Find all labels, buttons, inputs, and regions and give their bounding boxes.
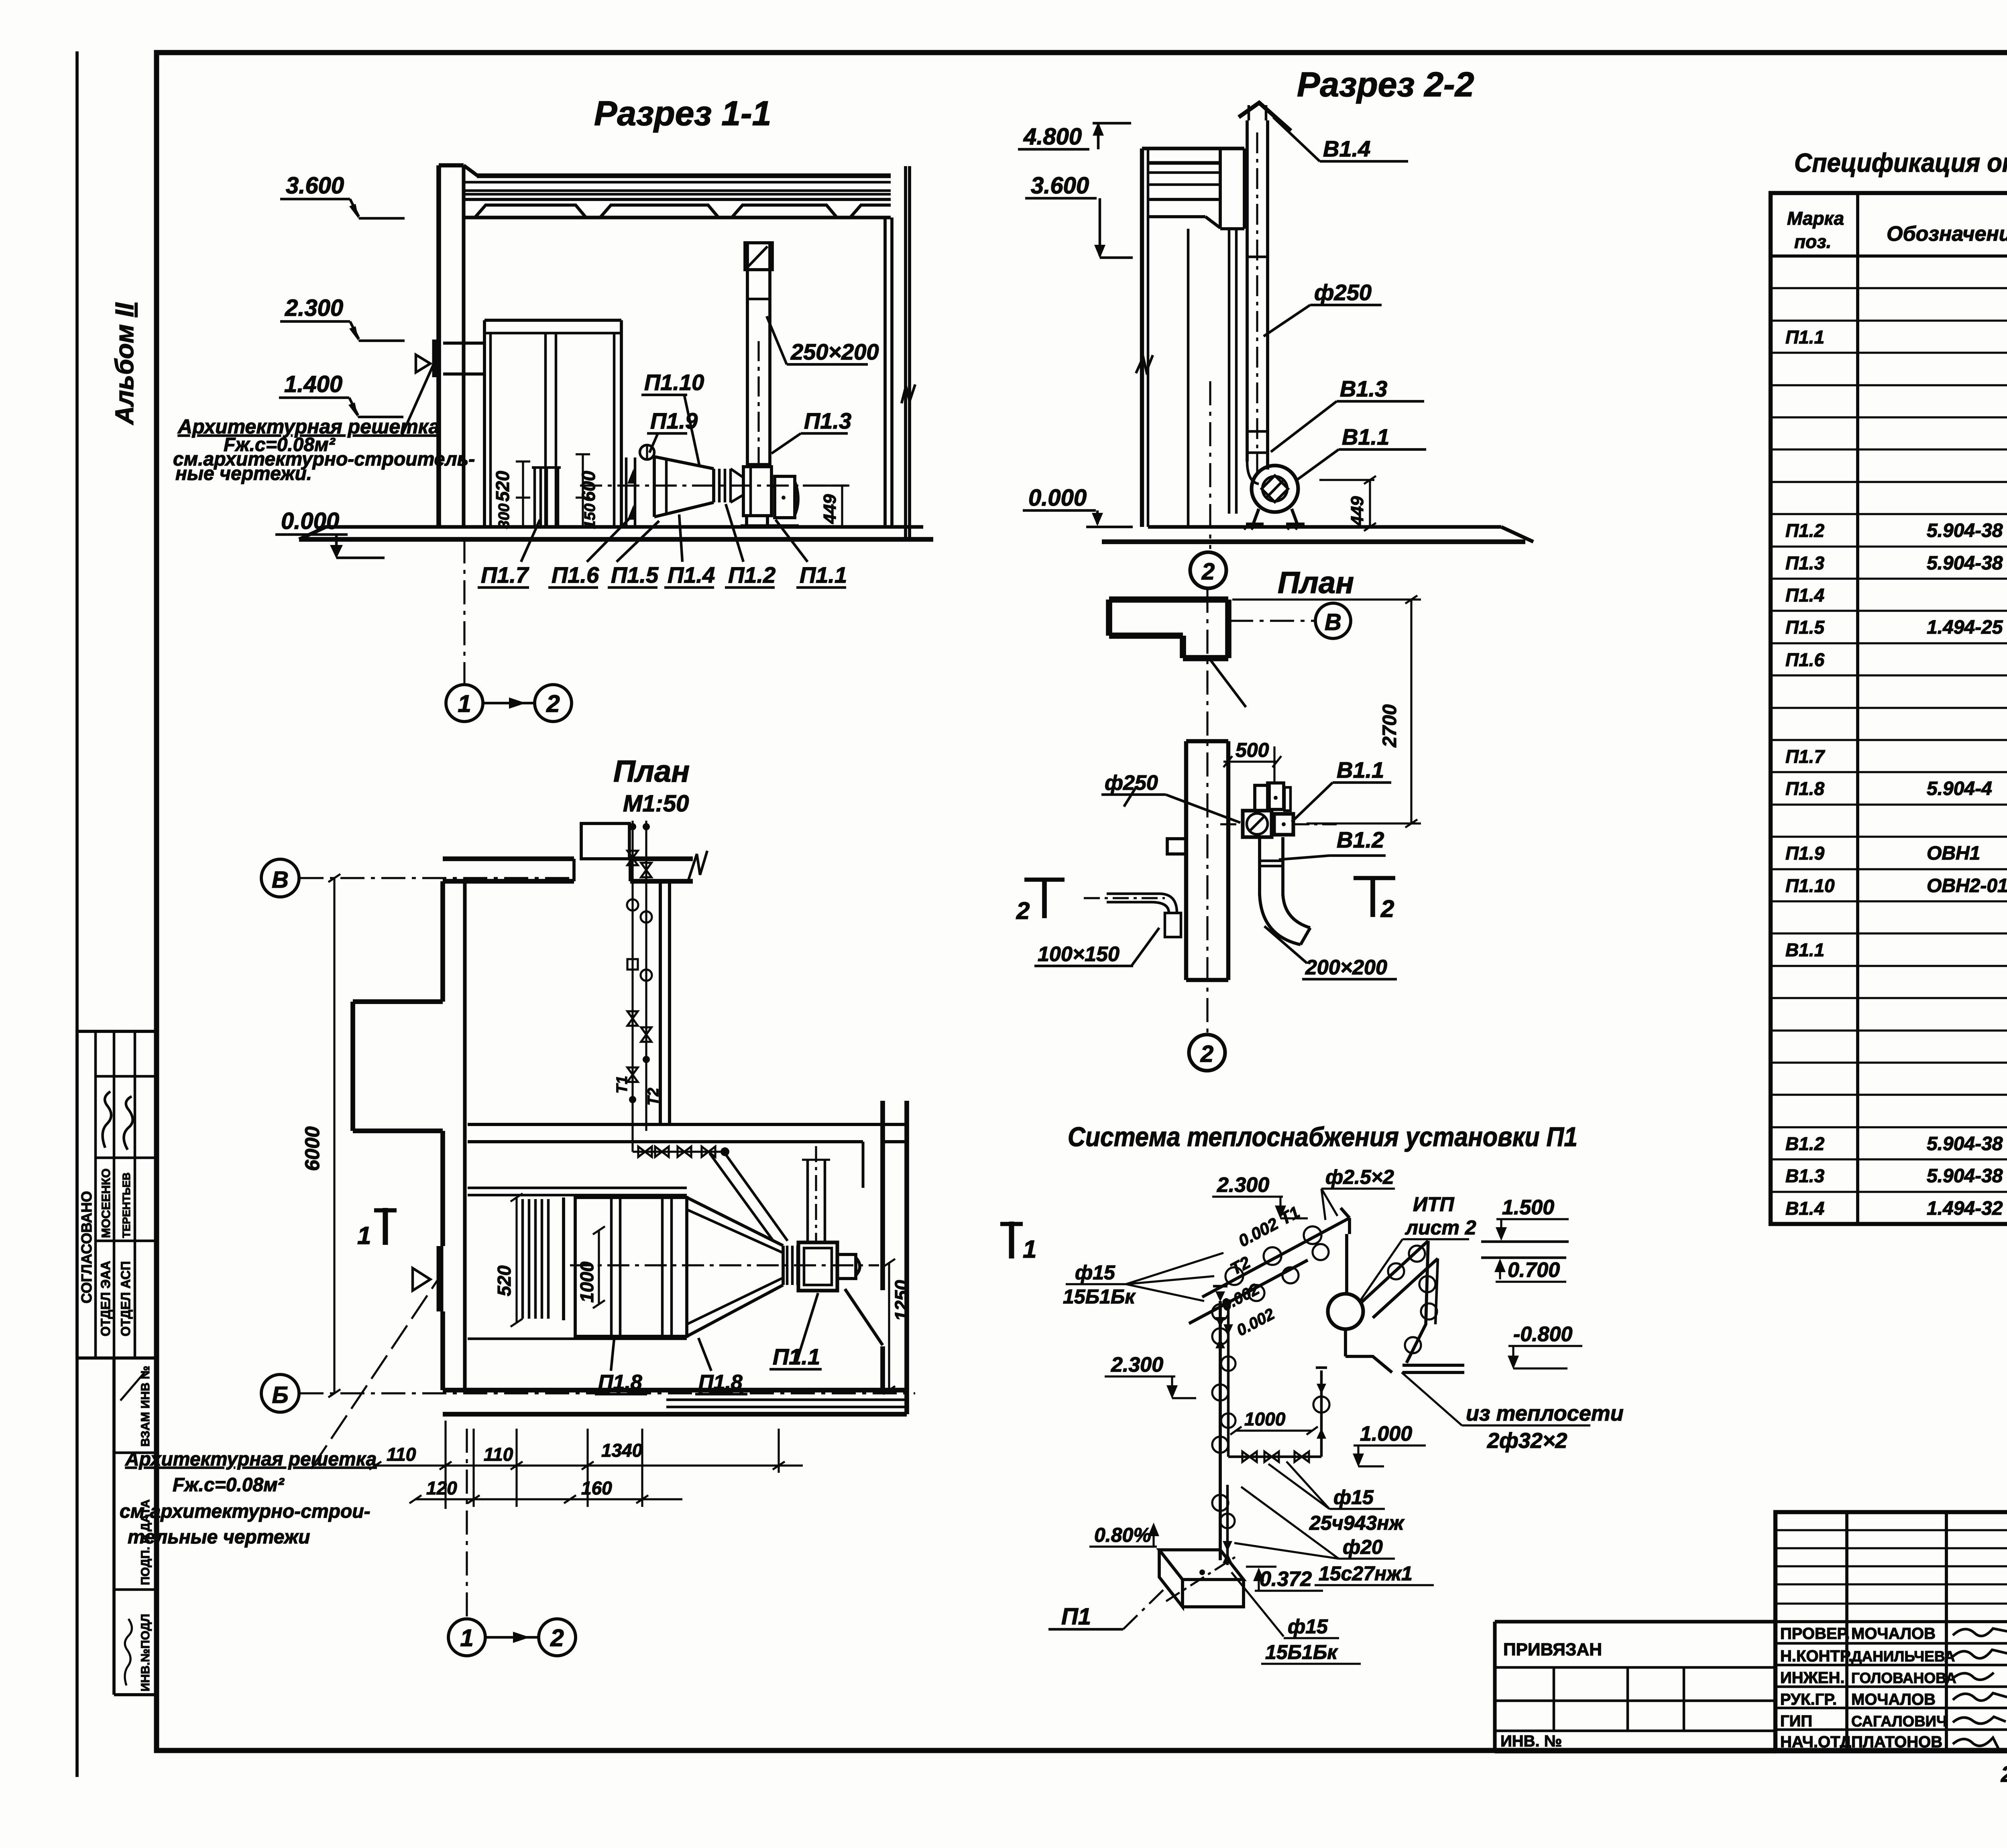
handwritten inv number [125,1619,132,1685]
svg-text:П1.1: П1.1 [1785,327,1824,348]
svg-text:0.80%: 0.80% [1094,1524,1151,1546]
architectural grille plate on wall [432,340,439,377]
svg-text:П1.5: П1.5 [611,562,659,588]
svg-text:В1.3: В1.3 [1785,1165,1825,1186]
section mark 1 left [383,1208,388,1245]
fan feet [745,516,748,526]
left wall [1140,148,1144,527]
svg-text:ИТП: ИТП [1413,1193,1455,1216]
svg-text:ф15: ф15 [1075,1261,1115,1284]
axis bubble 2 [535,685,572,722]
doorway leaf upper П1.8 [581,823,629,859]
dim 449 [1319,479,1374,481]
riser lower part to П1 box [1226,1485,1229,1565]
stack umbrella cap [1248,105,1250,120]
svg-text:2: 2 [1380,895,1394,922]
svg-text:520: 520 [494,1265,515,1296]
svg-text:1: 1 [458,690,471,717]
svg-text:2.300: 2.300 [1111,1353,1163,1376]
svg-text:ные чертежи.: ные чертежи. [175,463,312,484]
svg-text:2: 2 [1016,897,1030,924]
section mark 1 right [1009,1222,1014,1258]
svg-text:П1.7: П1.7 [1785,746,1825,767]
svg-text:0.700: 0.700 [1508,1258,1560,1282]
axis line below section [463,539,465,684]
svg-text:520: 520 [492,471,513,502]
roof beam web 3 [732,205,837,218]
svg-text:1.400: 1.400 [284,371,342,397]
svg-text:ГОЛОВАНОВА: ГОЛОВАНОВА [1851,1670,1956,1686]
fan inlet stub above [806,1160,809,1242]
svg-text:В1.4: В1.4 [1323,136,1370,161]
interior wall vertical [659,881,662,1124]
svg-text:ДАНИЛЬЧЕВА: ДАНИЛЬЧЕВА [1851,1648,1955,1665]
riser valve triangles [1215,1317,1225,1328]
signatures sub-block [1775,1512,2007,1751]
svg-text:2700: 2700 [1379,704,1400,748]
svg-text:П1.2: П1.2 [728,562,776,588]
section mark 2 left [1042,880,1047,918]
svg-text:ф250: ф250 [1105,771,1158,795]
svg-text:-0.800: -0.800 [1513,1323,1573,1346]
air damper П1.6 [625,457,628,526]
right wall band [880,1101,885,1290]
fan scroll П1.1 [743,467,771,516]
svg-text:В1.2: В1.2 [1337,827,1384,852]
dim 1250 [888,1263,890,1390]
svg-text:ПРИВЯЗАН: ПРИВЯЗАН [1503,1640,1602,1659]
svg-text:из теплосети: из теплосети [1466,1401,1624,1425]
svg-text:1: 1 [357,1222,371,1250]
svg-text:Спецификация отопительно-Венти: Спецификация отопительно-Вентиляционных … [1794,148,2007,177]
signature squiggles [103,1092,111,1148]
svg-text:5.904-38: 5.904-38 [1927,553,2003,574]
svg-text:Fж.с=0.08м²: Fж.с=0.08м² [173,1474,285,1496]
duct chase wall [1184,741,1188,980]
axis line and bubble 2 [1209,381,1211,549]
fan П1.1 plan [798,1242,837,1291]
axis bubble 2 bottom [1189,1035,1225,1071]
lower margin cells [112,1358,116,1695]
svg-text:Н.КОНТР.: Н.КОНТР. [1780,1647,1853,1665]
transition П1.9 handle circle [640,445,654,459]
svg-text:Обозначение: Обозначение [1887,222,2007,246]
cone transition [687,1197,783,1336]
dim 1000 horizontal [1236,1429,1313,1431]
svg-text:П1.6: П1.6 [552,562,599,588]
heating pipe risers [631,821,633,1131]
svg-text:1340: 1340 [601,1440,643,1461]
leader from wall block [1209,658,1246,707]
small duct 100x150 [1107,892,1159,895]
привязан block [1495,1620,1775,1623]
svg-text:Разрез 1-1: Разрез 1-1 [594,94,771,133]
svg-text:МОСЕЕНКО: МОСЕЕНКО [100,1169,113,1238]
svg-text:П1.2: П1.2 [1785,520,1824,541]
pilaster step out [353,999,443,1004]
filter П1.7 [533,468,536,526]
roof slab lines [477,173,891,178]
svg-text:25ч943нж: 25ч943нж [1309,1512,1404,1534]
left margin stamp table [77,1031,156,1695]
axis bubble 2 top [1190,552,1226,588]
svg-text:Т1: Т1 [614,1076,631,1094]
svg-text:Альбом II: Альбом II [110,302,139,425]
svg-text:110: 110 [484,1444,513,1465]
svg-text:ОТДЕЛ АСП: ОТДЕЛ АСП [118,1261,133,1336]
inner chamber outline [468,1187,687,1189]
svg-text:160: 160 [581,1478,612,1498]
svg-text:2: 2 [1201,559,1215,585]
door frame [484,319,621,322]
svg-text:ИНВ. №: ИНВ. № [1500,1732,1562,1750]
svg-text:ф15: ф15 [1333,1486,1374,1508]
svg-text:250×200: 250×200 [790,339,879,364]
svg-text:П1.7: П1.7 [481,562,529,588]
svg-text:1.494-32: 1.494-32 [1927,1198,2003,1219]
door leaf right wall [845,1289,883,1345]
svg-text:САГАЛОВИЧ: САГАЛОВИЧ [1851,1713,1947,1730]
П1 heater box axonometric [1159,1550,1244,1580]
floor slab [325,525,923,529]
pipes from теплосеть zigzag [1362,1241,1428,1302]
svg-text:1000: 1000 [1244,1409,1286,1429]
spec table grid [1771,193,2007,1224]
svg-text:ТЕРЕНТЬЕВ: ТЕРЕНТЬЕВ [120,1173,132,1238]
svg-text:П1.8: П1.8 [598,1371,642,1394]
svg-text:ПРОВЕР.: ПРОВЕР. [1780,1625,1850,1643]
fan centerline [570,1264,879,1266]
svg-text:6000: 6000 [301,1126,324,1171]
roof beam web 4 [850,205,891,218]
dim 1000 vertical [598,1230,600,1304]
svg-text:НАЧ.ОТД: НАЧ.ОТД [1780,1733,1851,1751]
svg-text:1.000: 1.000 [1360,1422,1412,1445]
svg-text:1: 1 [1023,1236,1036,1263]
ITP node circle [1328,1294,1363,1329]
grille direction triangle [416,355,430,372]
axis connector [483,702,535,705]
riser valves [627,851,652,1082]
wall grille opening [437,1246,444,1311]
svg-text:Т2: Т2 [645,1088,662,1106]
svg-text:ПЛАТОНОВ: ПЛАТОНОВ [1851,1733,1942,1751]
svg-text:1: 1 [460,1624,473,1651]
top wall band [443,856,574,861]
svg-text:МОЧАЛОВ: МОЧАЛОВ [1851,1625,1936,1643]
svg-text:В: В [272,867,289,893]
svg-text:ГИП: ГИП [1780,1712,1812,1730]
roof beams bottom chord [464,215,891,219]
svg-text:П1.3: П1.3 [804,408,851,433]
parapet column [1219,148,1222,229]
roof beam web 2 [600,205,719,218]
left main riser [1219,1301,1222,1560]
column pair [1228,229,1231,514]
svg-text:5.904-38: 5.904-38 [1927,520,2003,541]
svg-text:П1.1: П1.1 [773,1344,820,1369]
fan feet [1253,509,1259,524]
svg-text:120: 120 [426,1478,457,1498]
bottom wall band [443,1388,907,1393]
dim 600 / 150 vertical [582,454,584,528]
exhaust stack В1.4/ф250 [1246,120,1249,461]
svg-text:4.800: 4.800 [1023,124,1082,150]
vent chamber equipment: filter [521,1199,524,1319]
svg-text:В1.4: В1.4 [1785,1198,1824,1219]
svg-text:Разрез 2-2: Разрез 2-2 [1297,65,1474,104]
svg-text:П1.9: П1.9 [1785,843,1824,864]
supply duct П1.3 vertical [746,243,749,467]
svg-text:В1.1: В1.1 [1785,939,1824,960]
svg-text:М1:50: М1:50 [623,791,689,817]
svg-text:200×200: 200×200 [1305,956,1387,979]
svg-text:5.904-38: 5.904-38 [1927,1165,2003,1187]
svg-text:5.904-38: 5.904-38 [1927,1133,2003,1155]
grille leader [401,364,434,436]
wall block upper [1109,596,1228,603]
svg-text:150: 150 [582,504,598,529]
svg-text:тельные чертежи: тельные чертежи [128,1527,310,1548]
svg-text:0.000: 0.000 [281,508,339,534]
heater box [575,1197,687,1336]
svg-text:План: План [613,754,690,789]
svg-text:Система теплоснабжения установ: Система теплоснабжения установки П1 [1068,1122,1578,1152]
diagonal tick in margin [120,1372,145,1401]
dim 6000 [333,878,335,1393]
svg-text:0.372: 0.372 [1260,1567,1312,1591]
heater cone П1.4/П1.10 [654,457,714,469]
svg-text:ф20: ф20 [1343,1536,1383,1558]
svg-text:см.архитектурно-строи-: см.архитектурно-строи- [120,1501,370,1522]
flexible insert [786,1246,789,1285]
svg-text:П1.4: П1.4 [1785,585,1824,606]
svg-text:449: 449 [820,494,840,524]
vertical axis through plan [1206,589,1208,1035]
svg-text:СОГЛАСОВАНО: СОГЛАСОВАНО [78,1191,95,1303]
svg-text:300: 300 [496,504,513,529]
svg-text:ОВН2-01: ОВН2-01 [1927,875,2007,897]
Б axis bubble [261,1374,299,1412]
svg-text:МОЧАЛОВ: МОЧАЛОВ [1851,1691,1936,1708]
vertical pipe to ITP node [1348,1218,1351,1234]
top ticks on risers [1215,1291,1233,1310]
svg-text:Марка: Марка [1787,208,1844,229]
pipe T1 diagonal run [1202,1218,1350,1297]
svg-text:2.300: 2.300 [285,295,343,321]
svg-text:1.500: 1.500 [1502,1196,1554,1219]
axis to В bubble [1229,620,1316,622]
left wall band [440,881,445,1002]
svg-text:15Б1Бк: 15Б1Бк [1265,1641,1338,1663]
svg-text:П1.8: П1.8 [698,1371,743,1394]
branch with valves horizontal [1228,1456,1321,1458]
svg-text:В: В [1325,609,1341,635]
В axis bubble [261,859,299,897]
svg-text:В1.3: В1.3 [1340,376,1387,401]
svg-text:15Б1Бк: 15Б1Бк [1063,1285,1136,1308]
svg-text:П1.4: П1.4 [668,562,715,588]
svg-text:П1.10: П1.10 [644,370,704,395]
svg-text:500: 500 [1236,739,1269,761]
horizontal heating pipe run [631,1131,633,1152]
break tick on axis [1124,787,1136,807]
svg-text:ф2.5×2: ф2.5×2 [1325,1166,1394,1188]
svg-text:22536-01 23: 22536-01 23 [2001,1761,2007,1787]
fan В1.1 scroll [1252,466,1298,512]
right outer wall line [904,166,907,539]
left wall of building [436,165,441,528]
flexible insert П1.2 [718,469,721,502]
svg-text:ф250: ф250 [1314,280,1372,305]
wall stub left [1167,839,1186,854]
equipment centerline [580,484,847,486]
motor [775,476,795,518]
dim 520 / 300 vertical [522,461,524,528]
fan В1.1 plan [1243,811,1272,837]
inner column [883,218,887,527]
svg-text:3.600: 3.600 [1031,173,1089,199]
svg-text:ф15: ф15 [1288,1615,1328,1638]
insulation loops on diagonals [1212,1226,1321,1320]
section mark 2 right [1370,878,1375,917]
inner wall line [1187,229,1190,527]
svg-text:П1.8: П1.8 [1785,778,1824,799]
interior wall horizontal [468,1123,907,1126]
svg-text:П1.3: П1.3 [1785,553,1824,573]
svg-text:П1.6: П1.6 [1785,649,1824,670]
svg-text:ОВН1: ОВН1 [1927,843,1980,864]
floor slab [1148,525,1501,529]
svg-text:ИНВ.№ПОДЛ: ИНВ.№ПОДЛ [139,1614,152,1691]
dim 2700 [1232,598,1421,600]
svg-text:В1.1: В1.1 [1337,757,1384,783]
svg-text:2: 2 [546,690,560,717]
svg-text:1000: 1000 [576,1261,597,1303]
svg-text:ОТДЕЛ ЭАА: ОТДЕЛ ЭАА [98,1261,113,1336]
svg-text:3.600: 3.600 [286,173,344,199]
wall break mark [902,384,915,403]
svg-text:План: План [1278,566,1354,600]
svg-text:П1.5: П1.5 [1785,617,1825,638]
svg-text:В1.2: В1.2 [1785,1133,1825,1154]
svg-text:449: 449 [1347,496,1367,526]
svg-text:110: 110 [387,1444,416,1465]
svg-text:В1.1: В1.1 [1342,424,1389,449]
extension lines [446,1421,779,1509]
svg-text:2.300: 2.300 [1217,1173,1269,1197]
svg-text:поз.: поз. [1794,231,1831,252]
svg-text:Б: Б [272,1382,288,1408]
signature squiggles [1953,1628,2007,1636]
dim 449 [803,484,847,486]
elevation 0.700 [1481,1256,1566,1259]
svg-text:1250: 1250 [891,1280,912,1321]
svg-text:лист 2: лист 2 [1405,1216,1476,1239]
svg-text:Архитектурная решетка: Архитектурная решетка [125,1449,377,1470]
svg-text:2: 2 [550,1624,564,1651]
axis bubble 1 [446,685,483,722]
sheet outer trim line left [75,51,79,1777]
svg-text:П1.10: П1.10 [1785,875,1835,896]
svg-text:2ф32×2: 2ф32×2 [1487,1429,1567,1453]
svg-text:2: 2 [1200,1041,1213,1067]
leader to grille [311,1280,438,1469]
svg-text:П1: П1 [1061,1604,1091,1630]
dim 520 vertical [515,1197,517,1323]
svg-text:0.000: 0.000 [1028,485,1087,511]
bottom dimension chain [375,1464,803,1466]
roof beam web 1 [475,205,586,218]
svg-text:15с27нж1: 15с27нж1 [1319,1562,1413,1585]
lower axis line + bubbles 1 2 [466,1429,468,1618]
svg-text:РУК.ГР.: РУК.ГР. [1780,1691,1837,1708]
wall break mark [1136,355,1153,373]
svg-text:П1.9: П1.9 [650,408,698,433]
elbow duct 200x200 [1258,837,1261,896]
roof slab [1148,161,1220,165]
axis bubbles 1-2 above plan [466,707,467,708]
svg-text:100×150: 100×150 [1038,943,1120,966]
svg-text:1.494-25: 1.494-25 [1927,617,2003,638]
svg-text:ИНЖЕН.: ИНЖЕН. [1780,1669,1844,1687]
svg-text:5.904-4: 5.904-4 [1927,778,1992,799]
svg-text:П1.1: П1.1 [800,562,847,588]
